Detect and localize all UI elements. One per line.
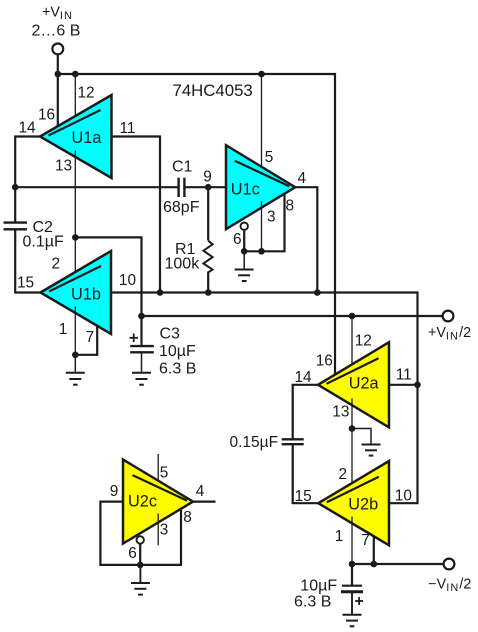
pin line 5 U1c (261, 74, 263, 173)
pin line 2 U1b (74, 237, 76, 278)
capacitor C3 (130, 346, 154, 352)
node junction U1b pin1 pin7 (72, 352, 79, 359)
svg-text:U1a: U1a (72, 129, 103, 147)
svg-text:9: 9 (110, 483, 119, 500)
svg-text:10µF: 10µF (159, 343, 196, 360)
pin line 12 U1a (74, 74, 76, 122)
mux U1b (41, 251, 112, 334)
node junction +VIN rail (55, 71, 62, 78)
pin line 13 U1a (74, 151, 76, 238)
wire pin6 U2c down (139, 544, 141, 565)
wire -VIN/2 line (352, 563, 444, 565)
node junction pin4 net (314, 289, 321, 296)
node junction U2b pin7 (371, 561, 378, 568)
node junction pin3 gnd (258, 248, 265, 255)
svg-text:12: 12 (78, 85, 95, 102)
wire branch pin2 node to C3 node (75, 237, 141, 316)
terminal +VIN/2 (443, 311, 454, 322)
node junction pin5 tap (258, 71, 265, 78)
wire pin9 U2c loop (100, 502, 140, 565)
pin line 1 U2b (351, 517, 353, 565)
terminal -VIN/2 (444, 559, 455, 570)
svg-text:15: 15 (17, 274, 34, 291)
wire U2a pin11 (389, 384, 418, 386)
svg-text:6: 6 (128, 545, 137, 562)
wire cap to U2b pin15 (293, 444, 319, 503)
node junction pin6 gnd (241, 248, 248, 255)
wire +VIN terminal down (57, 54, 59, 74)
label + 10uF (355, 597, 363, 605)
svg-text:68pF: 68pF (163, 199, 200, 216)
wire C3 top stub (140, 316, 142, 346)
svg-text:7: 7 (361, 532, 370, 549)
svg-text:U2a: U2a (349, 375, 380, 393)
svg-text:10: 10 (119, 272, 136, 289)
svg-text:13: 13 (332, 403, 349, 420)
svg-text:U1c: U1c (231, 180, 260, 198)
svg-text:6: 6 (233, 231, 242, 248)
svg-text:11: 11 (396, 366, 412, 383)
svg-text:14: 14 (295, 369, 313, 386)
node junction R1 bottom (205, 289, 212, 296)
ground U2c (131, 565, 150, 595)
svg-text:U1b: U1b (71, 285, 101, 303)
svg-text:2: 2 (339, 466, 348, 483)
svg-text:U2b: U2b (348, 495, 378, 513)
pin line 13 U2a (351, 398, 353, 428)
svg-text:−VIN/2: −VIN/2 (428, 576, 471, 594)
wire pin6 U1c down (243, 230, 245, 251)
svg-text:4: 4 (298, 170, 307, 187)
pin line 5 U2c (157, 454, 159, 487)
svg-text:4: 4 (196, 483, 205, 500)
svg-text:1: 1 (59, 321, 68, 338)
wire C1 net horizontal (15, 186, 178, 188)
svg-text:14: 14 (19, 120, 37, 137)
svg-text:+VIN: +VIN (42, 4, 73, 22)
ground U2a pin13 (352, 429, 381, 456)
capacitor C2 (4, 223, 28, 230)
node junction left rail / C1 net (12, 184, 19, 191)
node junction pin11 net (157, 289, 164, 296)
svg-text:5: 5 (265, 149, 274, 166)
pin line 3 U1c (261, 201, 263, 251)
svg-text:100k: 100k (165, 255, 201, 272)
svg-text:15: 15 (295, 488, 312, 505)
svg-text:3: 3 (267, 209, 276, 226)
capacitor 0.15uF (282, 439, 304, 444)
wire U2a pin14 to cap (293, 385, 318, 439)
svg-text:74HC4053: 74HC4053 (173, 81, 253, 100)
label + C3 (130, 334, 139, 343)
svg-text:8: 8 (286, 197, 295, 214)
svg-text:6.3 В: 6.3 В (294, 593, 331, 610)
node junction pin13 gnd (349, 425, 356, 432)
svg-text:13: 13 (55, 157, 72, 174)
ground C3 (132, 352, 151, 384)
svg-text:7: 7 (86, 329, 95, 346)
mux U2a (318, 342, 389, 427)
svg-text:16: 16 (316, 352, 333, 369)
pin 6 inverter circle U1c (241, 223, 248, 230)
wire pin7 U1b (75, 326, 97, 355)
terminal +VIN (52, 44, 63, 55)
ground 10uF (343, 592, 362, 626)
svg-text:11: 11 (120, 120, 136, 137)
wire pin8 U2c loop (140, 509, 181, 565)
node junction U2b pin1 (349, 561, 356, 568)
wire C1 to U1c pin9 (184, 186, 226, 188)
wire pin8 U1c (244, 194, 284, 252)
node junction pin13/pin2 branch (72, 234, 79, 241)
resistor R1 (203, 187, 212, 292)
svg-text:3: 3 (160, 521, 169, 538)
svg-text:10: 10 (395, 487, 412, 504)
wire U1a pin16 supply (57, 74, 59, 128)
svg-text:0.1µF: 0.1µF (23, 233, 64, 250)
node junction pin9/R1 (205, 184, 212, 191)
svg-text:2…6 В: 2…6 В (32, 23, 81, 40)
capacitor 10uF output (341, 586, 363, 592)
wire C2 to U1b pin15 (15, 230, 40, 293)
mux U1a (40, 95, 112, 178)
svg-text:10µF: 10µF (300, 578, 337, 595)
svg-text:8: 8 (183, 509, 192, 526)
mux U2b (318, 461, 389, 545)
node junction U2a pin11 (414, 382, 421, 389)
wire U1b pin10 output rail (111, 293, 418, 504)
pin line 12 U2a (351, 316, 353, 371)
pin line 3 U2c (157, 514, 159, 546)
pin line 1 U1b (74, 306, 76, 354)
mux U1c (226, 145, 295, 229)
wire top +VIN rail (58, 74, 335, 375)
svg-text:6.3 В: 6.3 В (159, 361, 196, 378)
ground U1b (66, 355, 85, 385)
svg-text:5: 5 (160, 464, 169, 481)
wire +VIN/2 line (142, 315, 443, 317)
pin line 2 U2b (351, 429, 353, 490)
node junction pin12 tap (72, 71, 79, 78)
svg-text:C1: C1 (172, 159, 193, 176)
wire U1a pin11 down (112, 137, 161, 293)
node junction U2a pin12 tap (349, 313, 356, 320)
capacitor C1 (179, 178, 185, 197)
ground U1c (235, 251, 254, 281)
svg-text:12: 12 (355, 332, 372, 349)
svg-text:9: 9 (203, 168, 212, 185)
node junction U2c gnd (137, 562, 144, 569)
mux U2c (123, 460, 193, 544)
pin 6 inverter circle U2c (137, 536, 144, 543)
wire U1a pin14 to left rail down through C2 (15, 137, 40, 223)
svg-text:U2c: U2c (128, 493, 157, 511)
wire pin4 stub U2c (193, 501, 216, 503)
svg-text:16: 16 (38, 107, 55, 124)
svg-text:2: 2 (52, 255, 61, 272)
svg-text:0.15µF: 0.15µF (230, 434, 279, 451)
svg-text:C3: C3 (160, 325, 181, 342)
svg-text:1: 1 (335, 528, 344, 545)
wire pin7 U2b (373, 536, 375, 564)
node junction C3 top (138, 313, 145, 320)
wire 10uF top stub (351, 564, 353, 586)
svg-text:+VIN/2: +VIN/2 (428, 325, 471, 343)
wire U1c pin4 output (295, 187, 317, 292)
